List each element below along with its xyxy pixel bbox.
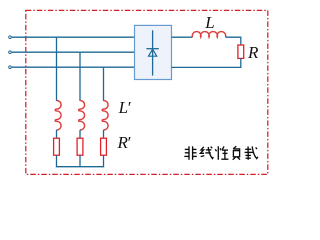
wire branch 2 vertical [79, 52, 81, 101]
resistor R'3 [101, 138, 107, 155]
wire branch 3 vertical [103, 67, 105, 101]
wire rectifier output top [172, 36, 193, 38]
wire branch 1 vertical [56, 37, 58, 101]
glyph 载 [245, 146, 258, 159]
glyph 性 [215, 146, 228, 160]
svg-text:R′: R′ [117, 133, 131, 152]
wire below R'1 [56, 155, 58, 167]
inductor L [192, 32, 225, 38]
wire phase A [12, 36, 135, 38]
wire below L'3 [103, 130, 105, 138]
resistor R'1 [54, 138, 60, 155]
wire below L'2 [79, 130, 81, 138]
glyph 负 [233, 146, 240, 160]
svg-text:L: L [204, 13, 214, 32]
wire L to corner [226, 37, 241, 45]
diode triangle [149, 49, 157, 56]
svg-text:R: R [247, 43, 259, 62]
terminal C [9, 66, 12, 69]
wire below L'1 [56, 130, 58, 138]
terminal B [9, 51, 12, 54]
glyph 非 [184, 146, 197, 160]
text 非线性负载 (hand-drawn strokes) [184, 146, 258, 160]
rectifier internal cathode line [152, 30, 154, 75]
inductor L'3 [102, 100, 108, 130]
diode cathode bar [146, 48, 158, 50]
svg-text:L′: L′ [118, 98, 131, 117]
wire phase C [12, 66, 135, 68]
resistor R'2 [77, 138, 83, 155]
wire phase B [12, 51, 135, 53]
dashed boundary box (nonlinear load outline) [26, 10, 268, 174]
resistor R [238, 45, 244, 58]
wire below R'3 [103, 155, 105, 167]
inductor L'2 [79, 100, 85, 130]
inductor L'1 [55, 100, 61, 130]
wire below R'2 [79, 155, 81, 167]
wire neutral bus [56, 166, 104, 168]
wire R to rectifier bottom [172, 58, 241, 67]
glyph 线 [200, 147, 213, 159]
terminal A [9, 36, 12, 39]
rectifier U1 box [135, 25, 172, 79]
